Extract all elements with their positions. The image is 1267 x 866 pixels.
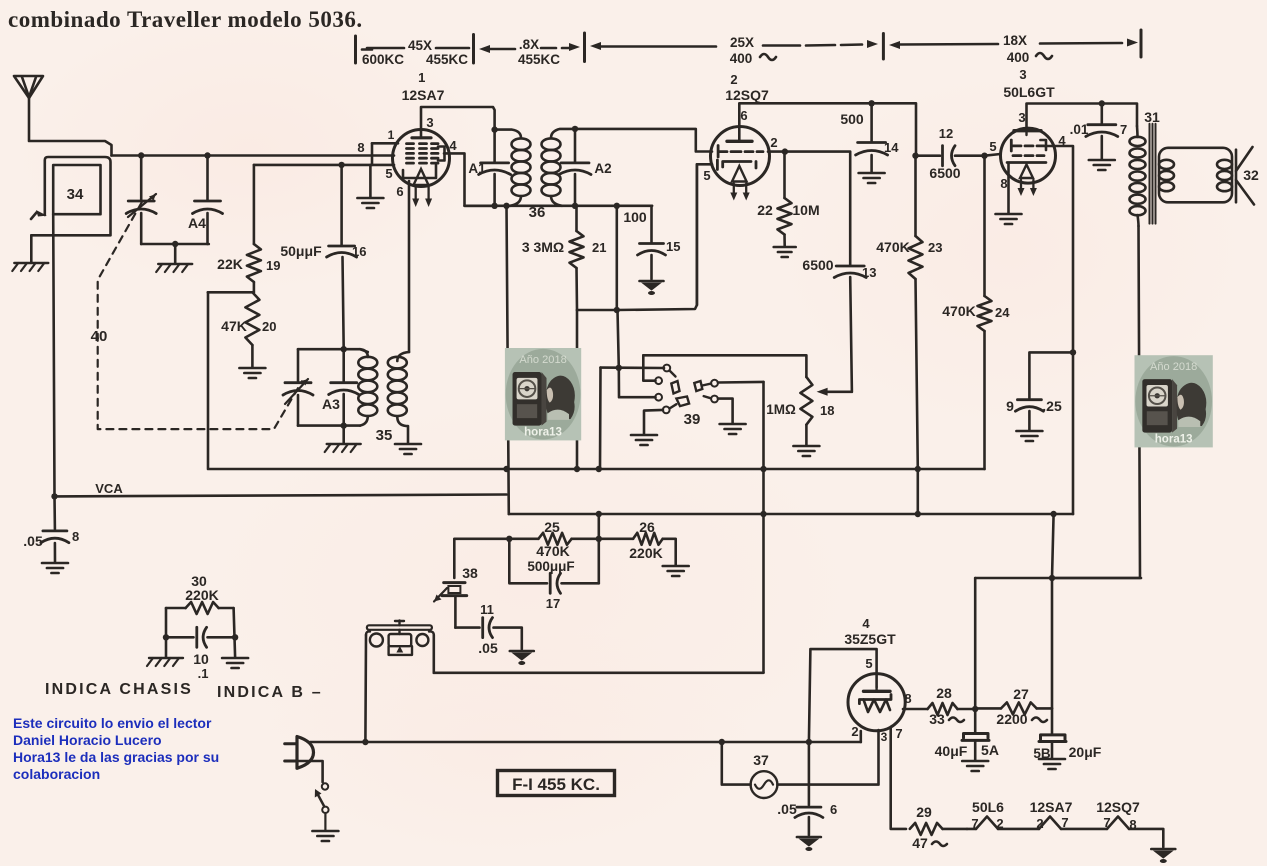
- pin label 3: [426, 115, 433, 130]
- wire T1 pin3: [421, 107, 495, 136]
- label 9: [1006, 398, 1014, 414]
- wire AC line: [310, 741, 861, 744]
- capacitor C6 .05: [795, 742, 823, 835]
- dashed gang line: [98, 202, 302, 429]
- junction: [782, 148, 788, 154]
- wire antenna to bus: [29, 141, 112, 156]
- junction: [972, 706, 978, 712]
- ground C6: [797, 837, 821, 851]
- wire y310 to pin5 drop: [617, 164, 697, 310]
- wire VCA left drop: [53, 496, 56, 529]
- wire T4 pin5: [809, 649, 877, 742]
- resistor R19 22K: [247, 244, 261, 282]
- label 50L6GT: [1003, 84, 1055, 100]
- transformer core: [1150, 124, 1156, 224]
- wire T3 pin4 drop: [1045, 146, 1073, 514]
- wire T3 pin5: [985, 154, 1001, 156]
- junction: [1049, 575, 1055, 581]
- ground C5B: [1039, 759, 1065, 769]
- pot wiper arrow: [817, 388, 828, 396]
- svg-text:39: 39: [684, 411, 701, 428]
- label 5A: [981, 742, 999, 758]
- wire 34 bottom to ground: [30, 235, 33, 262]
- tube V3 50L6GT: [1001, 128, 1056, 196]
- label 470K R24: [942, 303, 975, 319]
- label 35: [376, 427, 393, 444]
- svg-text:23: 23: [928, 240, 942, 255]
- svg-text:12SQ7: 12SQ7: [1096, 799, 1140, 815]
- svg-text:33: 33: [929, 711, 945, 727]
- svg-text:25X: 25X: [730, 35, 754, 50]
- ground C11: [510, 651, 534, 665]
- junction: [491, 203, 497, 209]
- svg-text:470K: 470K: [536, 543, 569, 559]
- wire T1 pin4: [444, 153, 495, 205]
- ground C8: [42, 563, 68, 573]
- label 20: [262, 319, 276, 334]
- credit text blue: [13, 715, 219, 782]
- pin label 8 T3: [1000, 176, 1007, 191]
- capacitor A3: [329, 349, 359, 425]
- pin label 2 T4: [851, 724, 858, 739]
- wire R23 to diode line: [916, 469, 919, 514]
- wire osc bottom: [298, 424, 360, 427]
- wire pot feed: [643, 355, 806, 377]
- label A3: [322, 396, 340, 412]
- label 7 h2: [1061, 815, 1068, 830]
- svg-text:3: 3: [881, 730, 888, 744]
- wire lamp to pin3: [777, 730, 878, 785]
- junction: [491, 126, 497, 132]
- trimmer capacitor (gang section): [126, 194, 156, 217]
- label .25: [1042, 398, 1062, 414]
- capacitor C12 6500: [916, 146, 985, 166]
- ground switch: [312, 831, 338, 841]
- svg-text:2200: 2200: [996, 711, 1027, 727]
- label A4: [188, 215, 206, 231]
- speaker frame 32: [1159, 148, 1232, 203]
- svg-text:4: 4: [449, 138, 457, 153]
- svg-text:2: 2: [851, 724, 858, 739]
- label 24: [995, 305, 1010, 320]
- chassis ground A3: [325, 444, 361, 452]
- junction: [912, 153, 918, 159]
- label 6500 C13: [802, 257, 833, 273]
- coil 35 primary: [358, 349, 377, 425]
- label 6500 C12: [929, 165, 960, 181]
- junction: [596, 466, 602, 472]
- voice coil: [1217, 160, 1232, 191]
- label 7c: [1120, 122, 1127, 137]
- wire 36 bottom line: [465, 205, 653, 208]
- wire trimmer2 left: [297, 349, 300, 381]
- label 15: [666, 239, 680, 254]
- label 50L6 h: [972, 799, 1004, 815]
- svg-text:400: 400: [1007, 50, 1030, 65]
- svg-text:INDICA CHASIS: INDICA CHASIS: [45, 681, 193, 698]
- pin label 1: [388, 128, 395, 142]
- wire VCA line: [55, 495, 507, 497]
- svg-text:50μμF: 50μμF: [280, 243, 322, 259]
- label .1: [198, 666, 209, 681]
- capacitor C5A 40uF: [962, 734, 989, 761]
- label 2 tube2: [730, 72, 737, 87]
- svg-text:31: 31: [1144, 109, 1160, 125]
- svg-text:8: 8: [904, 691, 911, 706]
- label A1: [468, 161, 486, 176]
- label 22 R: [757, 202, 773, 218]
- pin label 6: [396, 184, 403, 199]
- svg-text:6: 6: [830, 802, 837, 817]
- capacitor C5B 20uF: [1039, 735, 1066, 758]
- svg-text:10: 10: [193, 651, 209, 667]
- pin label 5 T2: [703, 168, 710, 183]
- pilot lamp 37: [751, 771, 778, 798]
- svg-text:27: 27: [1013, 686, 1029, 702]
- wire R21 bottom jog: [577, 309, 617, 312]
- svg-text:Año 2018: Año 2018: [1150, 361, 1197, 373]
- label 8 C8: [72, 529, 79, 544]
- wire B+ drop: [1052, 514, 1054, 708]
- svg-text:50L6: 50L6: [972, 799, 1004, 815]
- svg-text:25: 25: [544, 519, 560, 535]
- wire T2 pin2: [768, 152, 850, 265]
- svg-text:7: 7: [1061, 815, 1068, 830]
- wire to chassis gnd: [174, 244, 177, 263]
- label 6 C6: [830, 802, 837, 817]
- ground R18: [793, 446, 819, 456]
- label 10: [193, 651, 209, 667]
- phono mechanism: [366, 621, 434, 655]
- label 47K: [221, 318, 247, 334]
- junction: [506, 536, 512, 542]
- coil 31 primary: [1130, 126, 1146, 226]
- svg-text:2: 2: [770, 135, 777, 150]
- label 33: [929, 711, 964, 727]
- label 7 h1: [971, 816, 978, 831]
- coil 36 primary: [495, 130, 531, 206]
- capacitor C17 500uuF: [509, 539, 599, 594]
- svg-text:7: 7: [1120, 122, 1127, 137]
- svg-text:3 3MΩ: 3 3MΩ: [522, 239, 564, 255]
- junction: [341, 346, 347, 352]
- ground T3 cathode: [996, 214, 1022, 224]
- label 17: [546, 596, 560, 611]
- capacitor C7 .01: [1086, 104, 1118, 160]
- svg-text:7: 7: [971, 816, 978, 831]
- junction: [574, 466, 580, 472]
- wire osc top right: [344, 349, 368, 352]
- svg-text:16: 16: [352, 244, 366, 259]
- svg-text:500μμF: 500μμF: [527, 559, 574, 574]
- label 12SQ7 h: [1096, 799, 1140, 815]
- junction: [596, 511, 602, 517]
- wire R19-R20: [253, 282, 256, 292]
- svg-text:6500: 6500: [929, 165, 960, 181]
- svg-text:20: 20: [262, 319, 276, 334]
- svg-text:26: 26: [639, 519, 655, 535]
- wire T2 pin5 drop: [697, 164, 712, 305]
- svg-text:6: 6: [740, 108, 747, 123]
- label VCA: [95, 481, 123, 496]
- coil 32 secondary: [1159, 160, 1174, 191]
- pin label 8 T4: [904, 691, 911, 706]
- wire phono output line: [434, 671, 764, 674]
- svg-text:12SA7: 12SA7: [1030, 799, 1073, 815]
- wire drop to switch: [618, 310, 619, 368]
- svg-text:470K: 470K: [876, 239, 909, 255]
- junction: [204, 152, 210, 158]
- svg-text:20μF: 20μF: [1069, 744, 1102, 760]
- label 21: [592, 240, 606, 255]
- label 500uuF: [527, 559, 574, 574]
- wire C13 to pot wiper: [822, 277, 852, 392]
- junction: [138, 152, 144, 158]
- svg-text:hora13: hora13: [524, 426, 562, 438]
- watermark hora13 right: [1135, 355, 1213, 447]
- label 220K R30: [185, 587, 218, 603]
- label 10M: [792, 202, 819, 218]
- svg-text:3: 3: [1018, 110, 1025, 125]
- resistor R20 47K: [245, 292, 259, 345]
- wire 100box drop: [615, 206, 618, 310]
- junction: [614, 307, 620, 313]
- svg-text:600KC: 600KC: [362, 52, 404, 67]
- wire jog R19/R20 junction: [208, 291, 254, 294]
- junction: [1050, 511, 1056, 517]
- wire osc top: [298, 348, 344, 351]
- label 39: [684, 411, 701, 428]
- resistor R27 2200: [975, 702, 1052, 714]
- svg-text:10M: 10M: [792, 202, 819, 218]
- svg-text:.8X: .8X: [519, 37, 539, 52]
- wire B+ horiz: [975, 577, 1141, 580]
- junction: [614, 203, 620, 209]
- junction: [915, 466, 921, 472]
- chassis ground antenna: [12, 263, 48, 271]
- ground R22: [774, 247, 796, 257]
- svg-text:2: 2: [996, 816, 1003, 831]
- label 32: [1243, 167, 1259, 183]
- wire R21 drop to bus: [576, 310, 579, 469]
- svg-text:.01: .01: [1070, 122, 1089, 137]
- svg-text:A2: A2: [594, 161, 611, 176]
- coil 35 secondary: [388, 352, 409, 443]
- svg-text:7: 7: [1103, 815, 1110, 830]
- ground legend B: [222, 658, 248, 668]
- title text: [8, 7, 363, 32]
- tube V1 12SA7: [393, 130, 450, 208]
- label 35Z5GT: [844, 631, 896, 647]
- wire long vertical from IF: [507, 206, 509, 514]
- label 30: [191, 573, 207, 589]
- osc trimmer capacitor: [283, 379, 313, 404]
- junction: [51, 493, 57, 499]
- wire cathode ground stub T1: [369, 165, 372, 197]
- svg-text:combinado Traveller modelo 503: combinado Traveller modelo 5036.: [8, 7, 363, 32]
- svg-text:40μF: 40μF: [935, 743, 968, 759]
- speaker cone: [1236, 147, 1254, 205]
- svg-text:34: 34: [67, 186, 84, 203]
- label 37: [753, 752, 769, 768]
- svg-text:15: 15: [666, 239, 680, 254]
- svg-text:12SA7: 12SA7: [402, 87, 445, 103]
- ground pin6 12SA7: [357, 198, 383, 208]
- ground R20: [239, 368, 265, 378]
- pin label 7 T4: [895, 726, 902, 741]
- svg-text:47K: 47K: [221, 318, 247, 334]
- junction: [915, 511, 921, 517]
- legend INDICA B-: [217, 684, 323, 701]
- svg-text:12SQ7: 12SQ7: [725, 87, 769, 103]
- svg-text:28: 28: [936, 685, 952, 701]
- junction: [760, 511, 766, 517]
- wire T3 pin3: [1027, 104, 1138, 130]
- label 470K R23: [876, 239, 909, 255]
- svg-text:.05: .05: [23, 533, 43, 549]
- label 4 tube4: [862, 616, 870, 631]
- wire D-line drop to R25: [597, 514, 600, 583]
- wire C15 to gnd: [650, 255, 653, 279]
- junction: [981, 153, 987, 159]
- tube V2 12SQ7: [711, 127, 770, 201]
- capacitor C11 .05: [455, 618, 521, 649]
- svg-text:colaboracion: colaboracion: [13, 766, 100, 782]
- power switch: [297, 761, 329, 830]
- svg-text:455KC: 455KC: [518, 52, 560, 67]
- svg-text:1: 1: [418, 70, 425, 85]
- tap arrow on 34: [31, 210, 47, 219]
- svg-text:A3: A3: [322, 396, 340, 412]
- junction: [341, 422, 347, 428]
- svg-text:35Z5GT: 35Z5GT: [844, 631, 896, 647]
- svg-text:220K: 220K: [629, 545, 662, 561]
- IF frequency box: [498, 771, 615, 796]
- tube V4 35Z5GT: [848, 674, 905, 731]
- wire to C16: [340, 165, 343, 245]
- wire trimmer/A4 common: [141, 243, 209, 246]
- label .05 C6: [777, 801, 797, 817]
- junction: [172, 241, 178, 247]
- wire T4 pin8: [903, 708, 928, 711]
- junction: [503, 203, 509, 209]
- wire R30 left: [165, 608, 168, 657]
- svg-text:INDICA B –: INDICA B –: [217, 684, 323, 701]
- capacitor C10: [166, 627, 235, 647]
- capacitor C8 .05: [41, 531, 69, 543]
- junction: [503, 466, 509, 472]
- resistor R22 10M: [778, 152, 792, 246]
- capacitor C14 500: [856, 103, 888, 172]
- label 29: [916, 804, 932, 820]
- label 470K R25: [536, 543, 569, 559]
- capacitor C9 .25: [1015, 352, 1073, 430]
- label 50uuF: [280, 243, 322, 259]
- label 19: [266, 258, 280, 273]
- label 12SA7: [402, 87, 445, 103]
- wire top link A2 to grid line: [575, 129, 712, 152]
- diode line: [509, 513, 1054, 516]
- resistor R24 470K: [978, 156, 992, 469]
- resistor R26 220K: [599, 533, 676, 565]
- svg-text:100: 100: [623, 209, 647, 225]
- svg-text:2: 2: [1036, 816, 1043, 831]
- label 5B: [1033, 746, 1051, 761]
- label 28: [936, 685, 952, 701]
- wire trimmer bottom: [140, 213, 143, 244]
- wire A3 chassis stub: [342, 426, 345, 443]
- wire pin1 link: [372, 143, 398, 165]
- label 12SA7 h: [1030, 799, 1073, 815]
- capacitor A1: [479, 130, 511, 206]
- label 16: [352, 244, 366, 259]
- loop antenna 34: [31, 157, 110, 235]
- resistor R25 470K: [509, 533, 599, 545]
- capacitor C16 50uuF: [327, 246, 357, 257]
- svg-text:3: 3: [1019, 67, 1026, 82]
- label .01: [1070, 122, 1089, 137]
- label 12 C: [939, 126, 953, 141]
- wire lamp branch: [722, 742, 751, 785]
- junction: [1099, 100, 1105, 106]
- svg-text:220K: 220K: [185, 587, 218, 603]
- svg-text:Este circuito lo envio el lect: Este circuito lo envio el lector: [13, 715, 212, 731]
- ground C15: [640, 281, 664, 295]
- resistor R23 470K: [909, 156, 923, 469]
- junction: [760, 466, 766, 472]
- alignment dimension scale (45X 600KC-455KC / .8X 455KC / 25X 400 / 18X 400): [356, 30, 1142, 67]
- wire T2 pin6 top: [739, 103, 916, 155]
- svg-text:32: 32: [1243, 167, 1259, 183]
- label 100: [623, 209, 647, 225]
- capacitor C15: [638, 244, 666, 256]
- wire transformer bottom: [1052, 226, 1140, 578]
- svg-text:37: 37: [753, 752, 769, 768]
- wire phono left drop: [364, 635, 367, 742]
- svg-text:5: 5: [865, 656, 872, 671]
- label 26: [639, 519, 655, 535]
- potentiometer R18 1M: [800, 377, 812, 445]
- svg-text:5: 5: [385, 166, 392, 181]
- pin label 6 T2: [740, 108, 747, 123]
- ground C9: [1016, 431, 1042, 441]
- capacitor A4: [193, 201, 223, 214]
- svg-text:Hora13 le da las gracias por s: Hora13 le da las gracias por su: [13, 749, 219, 765]
- wire C8 gnd: [54, 543, 57, 562]
- wire T4 pin7 drop: [891, 727, 906, 829]
- label 13: [862, 265, 876, 280]
- svg-text:18X: 18X: [1003, 33, 1027, 48]
- watermark hora13 left: [505, 348, 581, 440]
- label A2: [594, 161, 611, 176]
- svg-text:4: 4: [862, 616, 870, 631]
- label 1MOhm: [766, 402, 796, 417]
- junction: [572, 203, 578, 209]
- wire pickup down: [454, 597, 457, 628]
- pin label 8: [357, 140, 364, 155]
- wire AC stub into T4: [859, 731, 862, 742]
- wire diode line to pin4: [1054, 513, 1073, 516]
- wire to A4: [206, 156, 209, 201]
- junction: [1070, 349, 1076, 355]
- label 31: [1144, 109, 1160, 125]
- wire to R19: [253, 165, 256, 244]
- svg-text:A1: A1: [468, 161, 486, 176]
- svg-text:8: 8: [1000, 176, 1007, 191]
- pin label 4 T3: [1058, 133, 1066, 148]
- chassis ground legend: [147, 658, 183, 666]
- chassis ground A4: [156, 264, 192, 272]
